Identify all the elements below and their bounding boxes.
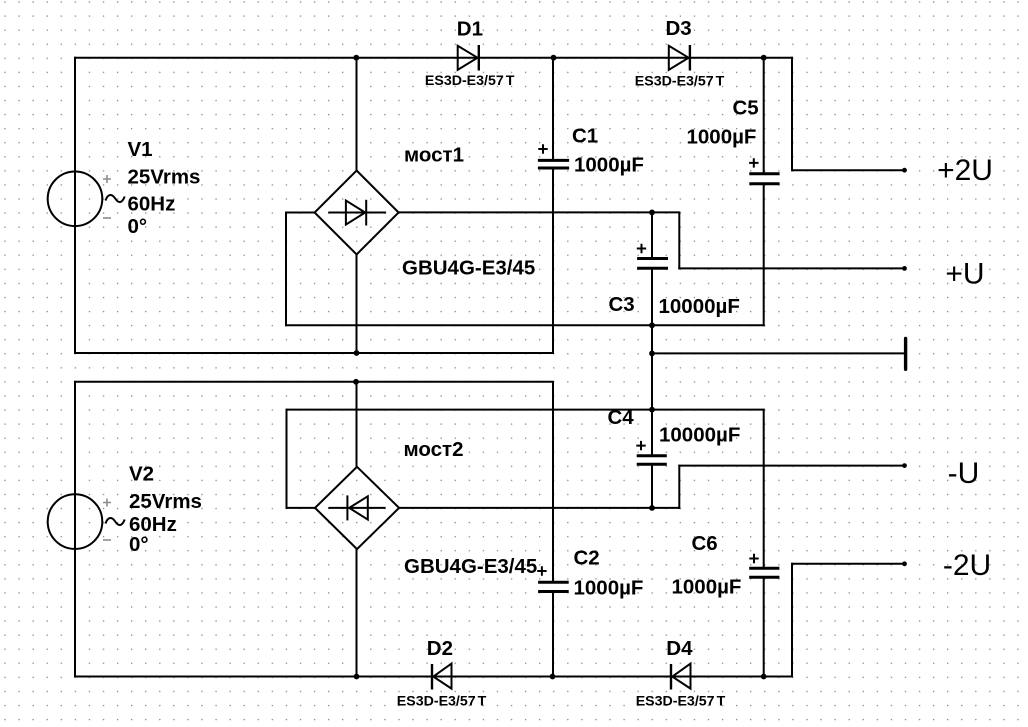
wire -2U rise vertical	[791, 563, 793, 678]
junction top rail / bridge1	[353, 55, 359, 61]
terminal dot +2U	[902, 168, 907, 173]
svg-text:1000µF: 1000µF	[574, 577, 644, 600]
wire +U horizontal	[678, 267, 904, 269]
svg-text:C3: C3	[609, 293, 635, 316]
svg-text:25Vrms: 25Vrms	[128, 166, 201, 189]
svg-text:1000µF: 1000µF	[687, 126, 757, 149]
capacitor C6	[749, 568, 779, 577]
wire bridge2 top lead	[356, 381, 358, 467]
svg-text:ES3D-E3/57T: ES3D-E3/57T	[397, 694, 487, 710]
svg-text:-U: -U	[948, 457, 980, 490]
junction bridge1 out / C3	[649, 210, 655, 216]
svg-text:0°: 0°	[128, 215, 148, 238]
wire V2 top rail	[74, 381, 554, 383]
wire bridge1 loop bottom rail	[285, 324, 764, 326]
junction rail / C4 top	[649, 407, 655, 413]
junction bottom rail / C6	[761, 674, 767, 680]
C5 polarity plus	[749, 158, 758, 167]
svg-text:C1: C1	[572, 125, 598, 148]
terminal dot -U	[902, 463, 907, 468]
wire C2 vertical upper	[552, 382, 554, 582]
svg-text:-2U: -2U	[943, 549, 991, 582]
svg-text:GBU4G-E3/45: GBU4G-E3/45	[404, 555, 537, 578]
junction V2 rail / bridge2	[353, 379, 359, 385]
terminal dot -2U	[902, 561, 907, 566]
junction bridge2 out / C4	[649, 505, 655, 511]
junction ground tap	[649, 351, 655, 357]
wire -U jog vertical	[678, 465, 680, 509]
wire +2U drop vertical	[791, 57, 793, 171]
svg-text:D1: D1	[457, 18, 483, 41]
label V1	[128, 138, 201, 238]
wire bridge2 loop left vertical	[286, 409, 288, 509]
wire V2 left vertical	[74, 381, 76, 678]
voltage source V1	[48, 172, 125, 227]
diode D3	[669, 45, 690, 71]
wire bridge2 right lead	[399, 507, 681, 509]
C1 polarity plus	[538, 144, 547, 153]
svg-text:D3: D3	[666, 17, 692, 40]
svg-text:V2: V2	[129, 463, 154, 486]
junction rail / C3 bottom	[649, 322, 655, 328]
capacitor C1	[538, 160, 569, 168]
wire bridge1 bottom lead	[356, 254, 358, 354]
junction bottom rail / C2	[550, 674, 556, 680]
wire top rail	[74, 57, 793, 59]
diode D1	[458, 45, 479, 71]
label V2	[129, 463, 202, 557]
wire -U horizontal	[678, 465, 904, 467]
wire ground horizontal	[652, 352, 906, 354]
svg-text:25Vrms: 25Vrms	[129, 490, 202, 513]
wire C4 bottom lead	[651, 465, 653, 509]
wire bridge2 loop top rail	[286, 409, 765, 411]
wire C5 bottom lead	[763, 185, 765, 327]
wire C3-C4 middle vertical	[651, 269, 653, 455]
wire bridge2 left lead	[286, 507, 316, 509]
wire bottom rail	[74, 676, 793, 678]
svg-text:V1: V1	[128, 138, 153, 161]
wire -2U horizontal	[791, 563, 905, 565]
wire bridge1 right lead	[398, 211, 680, 213]
C3 polarity plus	[637, 244, 646, 253]
wire +U jog vertical	[678, 212, 680, 270]
svg-text:+U: +U	[945, 258, 984, 291]
C6 polarity plus	[749, 554, 758, 563]
wire C2 vertical lower	[552, 592, 554, 677]
svg-text:10000µF: 10000µF	[659, 424, 740, 447]
C4 polarity plus	[636, 441, 645, 450]
wire bridge1 left lead	[285, 212, 315, 214]
svg-text:C6: C6	[692, 532, 718, 555]
capacitor C5	[749, 174, 779, 184]
capacitor C2	[538, 582, 569, 591]
svg-text:C5: C5	[733, 97, 759, 120]
voltage source V2	[48, 494, 125, 549]
wire C1 vertical upper	[552, 58, 554, 160]
capacitor C3	[637, 259, 668, 269]
diode D4	[671, 664, 691, 690]
ground terminal bar	[904, 339, 907, 370]
wire bridge1 loop left vertical	[285, 212, 287, 327]
svg-text:GBU4G-E3/45: GBU4G-E3/45	[402, 257, 535, 280]
bridge rectifier мост1	[315, 171, 399, 255]
junction V1 rail / bridge1 bottom	[354, 350, 360, 356]
junction bottom rail / bridge2	[354, 674, 360, 680]
wire bridge2 bottom lead	[356, 549, 358, 678]
wire C6 bottom lead	[763, 578, 765, 677]
svg-text:мост2: мост2	[404, 438, 464, 461]
wire C6 top lead	[763, 409, 765, 568]
wire V1 bottom rail	[74, 352, 554, 354]
wire C5 top lead	[763, 58, 765, 173]
svg-text:1000µF: 1000µF	[672, 576, 742, 599]
wire +2U horizontal	[791, 169, 905, 171]
wire C1 vertical lower	[552, 169, 554, 354]
wire V1 left vertical	[74, 57, 76, 354]
svg-text:1000µF: 1000µF	[574, 154, 644, 177]
svg-text:0°: 0°	[129, 533, 149, 556]
junction top rail / C5	[761, 55, 767, 61]
svg-text:D2: D2	[427, 637, 453, 660]
C2 polarity plus	[537, 566, 546, 575]
svg-text:ES3D-E3/57T: ES3D-E3/57T	[636, 694, 726, 710]
capacitor C4	[637, 456, 667, 465]
svg-text:60Hz: 60Hz	[128, 193, 176, 216]
diode D2	[432, 664, 452, 690]
terminal dot +U	[902, 266, 907, 271]
wire bridge1 top lead	[356, 58, 358, 172]
svg-text:10000µF: 10000µF	[659, 295, 740, 318]
bridge rectifier мост2	[315, 467, 399, 549]
svg-text:D4: D4	[666, 637, 693, 660]
svg-text:мост1: мост1	[404, 144, 464, 167]
svg-text:ES3D-E3/57T: ES3D-E3/57T	[635, 74, 725, 90]
wire C3 top lead	[651, 212, 653, 257]
svg-text:+2U: +2U	[937, 154, 993, 187]
svg-text:C2: C2	[574, 547, 600, 570]
svg-text:ES3D-E3/57T: ES3D-E3/57T	[425, 73, 515, 89]
junction top rail / C1	[551, 55, 557, 61]
